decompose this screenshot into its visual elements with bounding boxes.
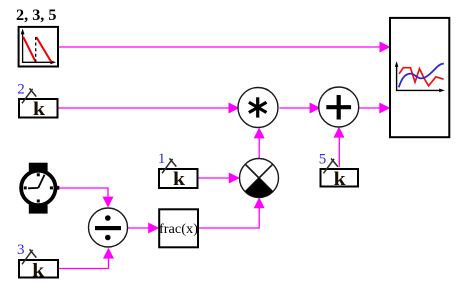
svg-text:2, 3, 5: 2, 3, 5 (16, 7, 57, 24)
svg-text:k: k (32, 260, 44, 281)
svg-text:1: 1 (158, 151, 166, 167)
svg-text:3: 3 (17, 242, 25, 258)
svg-text:frac(x): frac(x) (159, 222, 198, 237)
svg-text:5: 5 (319, 152, 327, 168)
svg-text:2: 2 (17, 82, 25, 98)
svg-text:k: k (334, 169, 346, 190)
svg-text:k: k (33, 99, 45, 120)
svg-text:k: k (173, 169, 185, 190)
